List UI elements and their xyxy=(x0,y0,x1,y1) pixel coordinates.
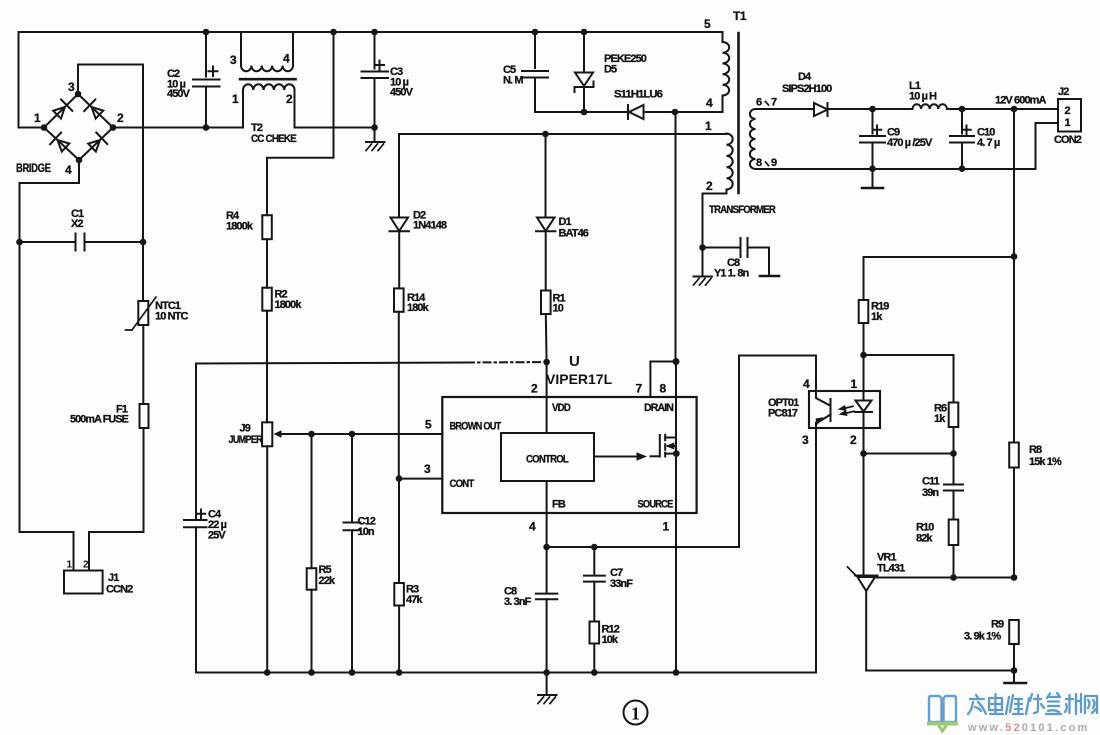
svg-text:10 µ H: 10 µ H xyxy=(909,91,937,103)
wire: source pin down to rail xyxy=(675,446,677,673)
transil D5 PEKE250 xyxy=(575,29,647,116)
resistor R5 22k xyxy=(307,434,336,676)
svg-text:1: 1 xyxy=(34,111,41,125)
wire: opto top rail to R6 xyxy=(864,355,954,403)
svg-text:7: 7 xyxy=(636,382,643,396)
svg-text:J9: J9 xyxy=(240,423,251,435)
capacitor C8 Y1 1.8n xyxy=(703,238,780,280)
svg-text:FB: FB xyxy=(552,499,566,511)
svg-text:BAT46: BAT46 xyxy=(559,228,589,240)
wire: J9 down to bottom rail xyxy=(266,446,268,672)
svg-text:1k: 1k xyxy=(934,413,946,425)
connector J2 CON2 xyxy=(1036,86,1082,169)
transformer T1 secondary winding pins 6,7 - 8,9 xyxy=(750,97,777,170)
svg-text:5: 5 xyxy=(425,418,432,432)
svg-text:D4: D4 xyxy=(798,71,812,83)
watermark chinese title strokes xyxy=(968,693,1097,714)
circled figure 1 xyxy=(624,701,648,725)
svg-text:JUMPER: JUMPER xyxy=(229,434,263,446)
mosfet Q inside U xyxy=(660,435,680,457)
svg-text:3. 3nF: 3. 3nF xyxy=(504,596,532,608)
wire: secondary ground rail xyxy=(756,168,1036,170)
svg-text:10: 10 xyxy=(553,303,564,315)
svg-text:180k: 180k xyxy=(407,302,430,314)
svg-text:2: 2 xyxy=(706,179,713,193)
opto LED xyxy=(855,391,872,428)
svg-text:9: 9 xyxy=(771,157,777,169)
CONTROL block inside U xyxy=(501,433,594,481)
wire: opto pin2 down to VR1 xyxy=(863,428,865,575)
capacitor C11 39n xyxy=(922,454,963,520)
svg-text:450V: 450V xyxy=(167,88,191,100)
connector J1 CCN2 xyxy=(64,560,133,596)
wire: VDD pin into CONTROL xyxy=(546,362,548,433)
wire: node4 down-left xyxy=(20,160,80,183)
wire: S11 to T1 pin4 xyxy=(675,96,723,113)
svg-text:1: 1 xyxy=(705,119,712,133)
wire: pin7 stub xyxy=(650,362,676,398)
svg-text:1: 1 xyxy=(851,377,858,391)
wire: top HV rail xyxy=(19,31,723,33)
svg-text:CONT: CONT xyxy=(450,478,475,490)
svg-text:1N4148: 1N4148 xyxy=(413,220,447,232)
wire: top junction down to R4 xyxy=(267,29,337,216)
capacitor C8 3.3nF at FB xyxy=(504,547,557,676)
capacitor C2 10u 450V xyxy=(167,29,220,131)
svg-text:47k: 47k xyxy=(406,594,423,606)
svg-text:470 µ /25V: 470 µ /25V xyxy=(887,137,933,149)
svg-text:3: 3 xyxy=(230,53,237,67)
transformer T1 primary winding pins 5-4 xyxy=(704,9,747,110)
shunt regulator VR1 TL431 xyxy=(848,552,906,671)
thermistor NTC1 xyxy=(126,297,189,330)
wire: R19 top rail xyxy=(864,256,1015,258)
wire: opto pin2 to R6 bottom xyxy=(864,453,954,455)
capacitor C3 10u 450V xyxy=(362,29,414,131)
svg-text:25V: 25V xyxy=(208,530,226,542)
svg-text:2: 2 xyxy=(117,111,124,125)
svg-text:1: 1 xyxy=(663,520,670,534)
node 1 dot xyxy=(41,124,48,131)
svg-text:5: 5 xyxy=(704,17,711,31)
svg-text:450V: 450V xyxy=(390,87,414,99)
svg-text:500mA FUSE: 500mA FUSE xyxy=(70,414,129,426)
transformer T1 core xyxy=(737,33,740,193)
ground under C3 xyxy=(366,128,385,151)
capacitor C7 33nF xyxy=(584,547,633,622)
resistor R6 1k xyxy=(934,403,958,457)
jumper J9 xyxy=(229,422,273,446)
svg-text:10k: 10k xyxy=(602,634,619,646)
capacitor C5 N.M xyxy=(503,29,548,112)
wire: VR1 cathode rail xyxy=(877,577,1015,579)
node 2 dot xyxy=(110,124,117,131)
wire: D5 to S11H1LU6 xyxy=(584,111,628,113)
bridge rectifier BRIDGE diamond edges xyxy=(44,94,113,160)
svg-text:VIPER17L: VIPER17L xyxy=(546,371,613,387)
ground under T1 pin2 xyxy=(694,248,713,286)
resistor R3 47k xyxy=(394,583,423,606)
inductor L1 10uH xyxy=(909,80,947,109)
svg-text:8: 8 xyxy=(756,157,762,169)
svg-text:1: 1 xyxy=(1065,117,1071,129)
svg-text:6: 6 xyxy=(756,97,762,109)
wire: R3 to bottom rail xyxy=(398,606,400,673)
capacitor C12 10n xyxy=(344,434,376,676)
svg-text:2: 2 xyxy=(83,560,89,571)
svg-text:1: 1 xyxy=(631,704,640,724)
ground bar under C9 xyxy=(862,169,883,188)
svg-text:2: 2 xyxy=(1065,105,1071,117)
watermark book icon xyxy=(929,696,956,722)
svg-text:1: 1 xyxy=(67,560,73,571)
bridge diode edge 4-2 xyxy=(86,132,107,153)
resistor R1 10 xyxy=(541,291,566,315)
wire: FB pin from CONTROL xyxy=(546,481,548,547)
svg-text:DRAIN: DRAIN xyxy=(644,402,674,414)
svg-text:TL431: TL431 xyxy=(877,563,905,575)
svg-text:Y1 1. 8n: Y1 1. 8n xyxy=(714,268,750,280)
wire: T2 pin2 to C3 xyxy=(295,127,375,129)
wire: D4 to L1 xyxy=(828,108,913,110)
wire: opto pin1 vertical xyxy=(863,355,865,391)
wire: R4 to R2 xyxy=(266,239,268,288)
wire: pin8 drain into mosfet xyxy=(675,362,677,447)
wire: secondary top to D4 xyxy=(756,108,815,110)
svg-text:www.520101.com: www.520101.com xyxy=(967,722,1090,734)
ground under FB cap xyxy=(538,673,557,704)
wire: L1 to J2 pin2 xyxy=(947,108,1058,110)
wire: left mains vertical xyxy=(18,32,20,128)
wire: bottom ground rail xyxy=(196,428,816,673)
svg-text:15k 1%: 15k 1% xyxy=(1029,456,1062,468)
opto coupling arrows xyxy=(838,405,855,416)
svg-text:1800k: 1800k xyxy=(226,221,254,233)
bridge diode edge 1-3 xyxy=(51,99,72,120)
svg-text:R8: R8 xyxy=(1029,444,1042,456)
svg-text:CC CHEKE: CC CHEKE xyxy=(251,133,297,145)
svg-text:10n: 10n xyxy=(358,526,375,538)
node 4 dot xyxy=(76,157,83,164)
svg-text:2: 2 xyxy=(286,92,293,106)
resistor R14 180k xyxy=(394,288,430,314)
svg-text:2: 2 xyxy=(850,433,857,447)
resistor R2 1800k xyxy=(262,288,302,311)
wire: NTC to fuse xyxy=(142,325,144,403)
svg-text:CON2: CON2 xyxy=(1054,134,1082,146)
svg-text:4: 4 xyxy=(283,52,290,66)
svg-text:4. 7 µ: 4. 7 µ xyxy=(977,137,1000,149)
optocoupler OPT01 PC817 xyxy=(768,377,880,447)
svg-text:T1: T1 xyxy=(733,9,747,23)
wire: VDD dash-dot rail solid part xyxy=(196,363,467,364)
svg-text:2: 2 xyxy=(531,382,538,396)
svg-text:N. M: N. M xyxy=(503,75,523,87)
resistor R9 3.9k 1% xyxy=(964,619,1019,671)
capacitor C1 X2 xyxy=(16,208,146,251)
svg-text:3: 3 xyxy=(424,462,431,476)
opto phototransistor xyxy=(816,391,831,428)
wire: VR1 anode rail xyxy=(866,670,1014,672)
svg-text:1800k: 1800k xyxy=(275,299,303,311)
node 3 dot xyxy=(75,91,82,98)
bridge diode edge 4-1 xyxy=(50,132,71,153)
svg-text:J1: J1 xyxy=(108,572,119,584)
diode D4 SIPS2H100 xyxy=(782,71,832,116)
svg-text:J2: J2 xyxy=(1058,86,1069,98)
svg-text:SIPS2H100: SIPS2H100 xyxy=(782,83,832,95)
svg-text:U: U xyxy=(569,353,580,370)
svg-text:4: 4 xyxy=(529,520,536,534)
common-mode choke T2 CC CHEKE xyxy=(230,32,297,145)
svg-text:7: 7 xyxy=(771,97,777,109)
svg-text:8: 8 xyxy=(660,382,667,396)
svg-text:R9: R9 xyxy=(991,619,1004,631)
svg-text:X2: X2 xyxy=(71,218,83,230)
resistor R4 1800k xyxy=(226,210,272,239)
wire: FB node row xyxy=(547,546,739,548)
wire: VDD dash-dot segment xyxy=(467,361,543,363)
wire: opto pin3 down joins bottom rail corner xyxy=(815,428,817,673)
capacitor C10 4.7u xyxy=(950,109,1000,172)
svg-text:3: 3 xyxy=(68,80,75,94)
svg-text:BRIDGE: BRIDGE xyxy=(16,161,51,175)
wire: left vertical to J1 xyxy=(20,183,74,571)
resistor R19 1k xyxy=(859,257,890,358)
wire: down to R3 xyxy=(398,479,400,583)
diode D1 BAT46 chain xyxy=(536,134,589,291)
svg-text:3. 9k 1%: 3. 9k 1% xyxy=(964,631,1001,643)
svg-text:4: 4 xyxy=(803,377,810,391)
svg-text:TRANSFORMER: TRANSFORMER xyxy=(709,204,776,216)
svg-text:1: 1 xyxy=(232,92,239,106)
svg-text:S11H1LU6: S11H1LU6 xyxy=(614,89,663,101)
IC U VIPER17L box xyxy=(424,353,697,534)
resistor R8 15k 1% xyxy=(1009,257,1062,581)
wire: node2 to C2/T2 bottom xyxy=(113,127,241,129)
wire: CONT stub xyxy=(399,478,442,480)
svg-text:C11: C11 xyxy=(922,476,940,488)
wire: FB loop up to opto pin4 xyxy=(739,356,816,548)
svg-text:3: 3 xyxy=(802,433,809,447)
svg-text:CONTROL: CONTROL xyxy=(526,454,569,466)
svg-text:10 NTC: 10 NTC xyxy=(155,311,188,323)
svg-text:PC817: PC817 xyxy=(768,408,798,420)
svg-text:D5: D5 xyxy=(604,64,617,76)
mosfet gate drive arrow xyxy=(594,452,659,460)
fuse F1 xyxy=(70,404,149,429)
svg-text:D1: D1 xyxy=(559,216,572,228)
wire: brown-out line with arrow into J9 xyxy=(274,430,443,438)
diode S11H1LU6 xyxy=(614,89,678,120)
wire: bias rail to T1 pin1 xyxy=(399,133,727,135)
resistor R10 82k xyxy=(916,520,958,581)
svg-text:22k: 22k xyxy=(319,575,336,587)
wire: drain vertical from T1 pin4 xyxy=(675,112,677,362)
svg-text:33nF: 33nF xyxy=(610,578,633,590)
resistor R12 10k xyxy=(590,622,620,676)
wire: R14 down to CONT junction xyxy=(398,312,400,479)
wire: 12V branch vertical xyxy=(1013,109,1015,257)
wire: fuse to J1 pin2 xyxy=(89,429,144,571)
svg-text:12V 600mA: 12V 600mA xyxy=(995,95,1047,107)
svg-text:VDD: VDD xyxy=(552,402,571,414)
svg-text:4: 4 xyxy=(706,96,713,110)
svg-text:4: 4 xyxy=(65,163,72,177)
wire: C1 right down to NTC xyxy=(142,242,144,301)
svg-text:1k: 1k xyxy=(871,311,883,323)
wire: node3 loop to C1 right xyxy=(78,65,143,243)
wire: C5 bottom to D5 xyxy=(535,111,584,113)
wire: R2 down to J9 xyxy=(266,311,268,423)
svg-text:BROWN OUT: BROWN OUT xyxy=(450,421,502,433)
svg-text:CCN2: CCN2 xyxy=(106,584,133,596)
transformer T1 bias winding pins 1-2 xyxy=(699,119,733,251)
svg-text:39n: 39n xyxy=(922,487,939,499)
svg-text:SOURCE: SOURCE xyxy=(638,499,673,511)
svg-text:82k: 82k xyxy=(916,533,933,545)
bridge diode edge 2-3 xyxy=(84,99,105,120)
capacitor C9 470u/25V xyxy=(860,109,933,172)
watermark book base xyxy=(927,724,958,732)
wire: node1 to bridge xyxy=(19,127,45,129)
wire: R1 to VDD node xyxy=(545,314,548,362)
ground bar under R9 xyxy=(1005,671,1027,684)
capacitor C4 22u 25V xyxy=(184,364,227,673)
diode D2 1N4148 chain from bias rail xyxy=(390,134,447,288)
